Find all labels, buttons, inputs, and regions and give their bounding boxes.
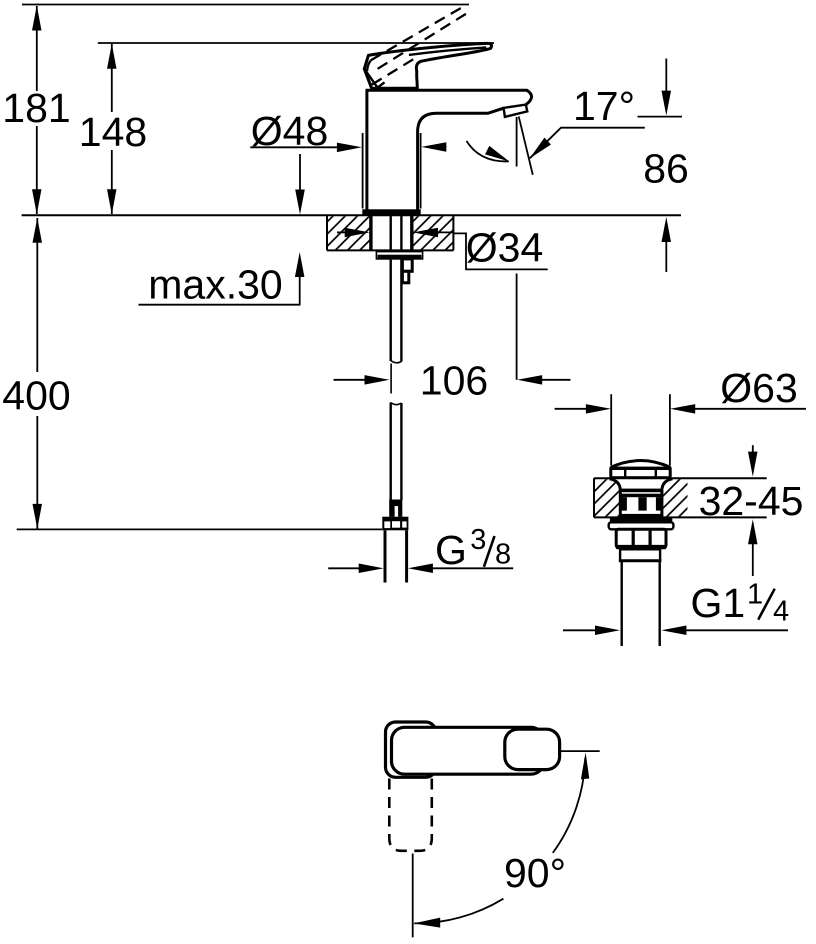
svg-text:1: 1 (747, 579, 763, 611)
water stream slanted line (519, 116, 533, 174)
dimension O34 right arrow (413, 228, 453, 238)
dimension G38 left arrow (328, 564, 384, 574)
drain slab hatch left (595, 479, 620, 516)
dimension O63 right arrow (670, 404, 806, 414)
angle arc with arrowhead (467, 141, 510, 162)
drain cap skirt (610, 468, 672, 479)
dimension 86 lower arrow (662, 217, 672, 272)
drain neck bands (620, 489, 662, 518)
drain rubber seal (610, 517, 672, 522)
spout outlet level line (638, 116, 683, 118)
label G38 (435, 524, 511, 573)
G38 threaded stub (385, 530, 407, 582)
svg-text:90°: 90° (504, 850, 566, 896)
supply pipe break thin line (390, 364, 392, 394)
faucet body top and spout top with beak (366, 90, 532, 105)
rotation arc 90deg (414, 752, 590, 927)
dimension O34 left arrow (337, 228, 370, 238)
svg-text:86: 86 (643, 146, 689, 192)
drain extension lines (611, 394, 670, 465)
pop-up rod bracket (402, 259, 412, 283)
svg-text:G1: G1 (691, 580, 746, 626)
label 400 (2, 373, 70, 419)
dimension G114 right arrow (661, 626, 788, 636)
handle lever solid outline (364, 43, 491, 88)
drain slab hatch right (662, 479, 688, 516)
counter slab outline (327, 215, 453, 250)
label max30 (148, 262, 282, 308)
label G114 (691, 579, 790, 628)
svg-text:Ø63: Ø63 (720, 365, 798, 411)
dimension 3245 lower arrow (748, 519, 758, 576)
coupling nut (382, 517, 408, 531)
svg-text:8: 8 (495, 539, 511, 571)
dimension O63 left arrow (555, 404, 611, 414)
svg-text:17°: 17° (573, 83, 635, 129)
plan handle end cap (505, 729, 560, 769)
dimension 148 arrows and line (107, 44, 117, 215)
dimension 86 upper arrow (662, 59, 672, 116)
reference line 148 (y=43) (98, 42, 494, 44)
plan centerline (412, 854, 414, 938)
label 3245 (699, 478, 804, 524)
reference line 181 top (y=4.5) (22, 4, 469, 6)
raised handle dashed upper edge (371, 5, 467, 61)
drain thread collar (619, 549, 661, 560)
svg-text:Ø48: Ø48 (251, 108, 329, 154)
label 17deg (573, 83, 635, 129)
raised handle dashed front edge (372, 58, 415, 84)
mounting shank threads (371, 215, 412, 250)
outlet axis extension line (516, 274, 518, 380)
counter slab hatch right (412, 216, 452, 249)
supply pipe lower segment (391, 403, 402, 501)
leader 17deg with arrowhead (530, 128, 645, 159)
svg-text:3: 3 (470, 524, 486, 556)
dimension 3245 upper arrow (748, 445, 758, 476)
drain locknut (616, 529, 667, 549)
label 148 (79, 109, 147, 155)
svg-text:148: 148 (79, 109, 147, 155)
water stream vertical line (516, 117, 518, 167)
label O63 (720, 365, 798, 411)
countertop line (y=215.2) (22, 214, 681, 216)
raised handle dashed lower edge (378, 11, 471, 69)
svg-text:G: G (435, 527, 467, 573)
raised handle dashed back edge (367, 60, 371, 84)
plan dashed handle position (389, 779, 432, 851)
dimension O48 left line and arrow (250, 143, 362, 153)
dimension G38 right arrow (408, 564, 513, 574)
handle blade inner line (409, 47, 486, 55)
label 106 (420, 358, 488, 404)
dimension 106 right arrow (517, 375, 570, 385)
mounting washer (376, 252, 422, 259)
svg-text:max.30: max.30 (148, 262, 282, 308)
leader O34 (453, 233, 547, 269)
plan pivot cap (386, 722, 436, 777)
spout aerator tip (504, 105, 528, 117)
drain metal washer (609, 522, 674, 529)
counter slab hatch left (328, 216, 371, 249)
plan handle blade (392, 727, 545, 774)
svg-text:4: 4 (773, 595, 789, 627)
label 90deg (504, 850, 566, 896)
hose crimp sleeve (389, 500, 402, 517)
faucet body left edge (365, 90, 368, 210)
drain slab outline (594, 478, 767, 517)
dimension O48 right line and arrow (421, 142, 446, 152)
svg-text:Ø34: Ø34 (466, 225, 544, 271)
dimension G114 left arrow (563, 626, 620, 636)
spout underside (418, 108, 504, 210)
plan reference line (560, 750, 600, 752)
reference line 400 bottom (17, 528, 383, 530)
dimension 106 left arrow (334, 375, 390, 385)
svg-text:400: 400 (2, 373, 70, 419)
dimension max30 lower arrow and leader (139, 252, 305, 305)
label 181 (2, 85, 70, 131)
label 86 (643, 146, 689, 192)
faucet base flange (362, 209, 420, 215)
drain neck body (610, 479, 673, 518)
supply pipe upper segment (391, 215, 402, 362)
label O48 (251, 108, 329, 154)
svg-text:32-45: 32-45 (699, 478, 804, 524)
dimension 400 arrows and line (33, 218, 43, 529)
handle pivot notch line (364, 69, 384, 88)
svg-text:106: 106 (420, 358, 488, 404)
label O34 (466, 225, 544, 271)
drain tailpipe (622, 561, 660, 646)
drain cap dome (610, 461, 672, 470)
dimension max30 upper arrow (295, 154, 305, 215)
dimension O48 extension lines (363, 133, 421, 209)
svg-text:181: 181 (2, 85, 70, 131)
dimension 181 arrows and line (32, 6, 42, 215)
